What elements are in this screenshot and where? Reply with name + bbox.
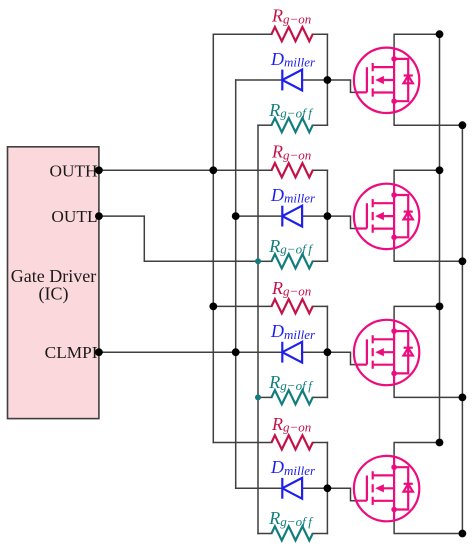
resistor R5 R_g-on xyxy=(271,278,313,314)
diode D2 D_miller xyxy=(270,185,316,227)
wire cell1 R_g-off row xyxy=(258,124,327,126)
wire cell3 gate vertical xyxy=(326,306,328,397)
wire cell3 gate step to MOSFET xyxy=(327,352,357,364)
diode D4 D_miller xyxy=(270,457,316,499)
svg-text:Dmiller: Dmiller xyxy=(270,49,316,70)
wire drain bus (right vertical) xyxy=(439,34,441,442)
node cell2 source junction xyxy=(459,257,467,265)
transistor Q2 MOSFET with body diode xyxy=(354,184,419,249)
wire cell3 R_g-on row xyxy=(213,305,327,307)
transistor Q1 MOSFET with body diode xyxy=(354,48,419,113)
wire cell2 drain up to bus xyxy=(394,170,439,185)
wire cell1 drain up to bus xyxy=(394,34,439,49)
node OUTH bus cell2 xyxy=(209,166,217,174)
diode D3 D_miller xyxy=(270,321,316,363)
wire OUTL pin stepped to R_g-off bus xyxy=(99,216,258,261)
wire cell3 drain up to bus xyxy=(394,306,439,321)
svg-text:Rg−of f: Rg−of f xyxy=(268,508,314,529)
svg-text:Rg−of f: Rg−of f xyxy=(268,100,314,121)
wire cell4 R_g-on row xyxy=(213,442,327,444)
transistor Q3 MOSFET with body diode xyxy=(354,320,419,385)
pin label OUTL xyxy=(51,207,97,226)
wire cell4 D_miller row xyxy=(236,487,328,489)
wire cell1 gate step to MOSFET xyxy=(327,80,357,92)
svg-text:OUTL: OUTL xyxy=(51,207,97,226)
svg-text:Rg−of f: Rg−of f xyxy=(268,236,314,257)
pin label OUTH xyxy=(50,161,98,180)
node cell4 gate junction xyxy=(324,484,332,492)
svg-text:(IC): (IC) xyxy=(39,283,69,304)
node OUTL bus cell3 (teal) xyxy=(255,394,261,400)
wire OUTH bus (left vertical 1) xyxy=(212,34,214,442)
svg-text:Dmiller: Dmiller xyxy=(270,321,316,342)
svg-text:Dmiller: Dmiller xyxy=(270,457,316,478)
svg-text:Rg−on: Rg−on xyxy=(271,142,311,163)
node clamp bus cell3 xyxy=(232,348,240,356)
node cell4 drain junction xyxy=(436,439,444,447)
wire cell1 R_g-on row xyxy=(213,33,327,35)
node cell3 drain junction xyxy=(436,303,444,311)
node cell3 gate junction xyxy=(324,348,332,356)
node cell4 source junction xyxy=(459,530,467,538)
wire CLMPI bus (left vertical 2) xyxy=(235,80,237,488)
wire cell4 gate vertical xyxy=(326,443,328,534)
resistor R3 R_g-on xyxy=(271,142,313,178)
wire cell2 R_g-off row xyxy=(258,260,327,262)
svg-text:Rg−on: Rg−on xyxy=(271,6,311,27)
wire cell4 gate step to MOSFET xyxy=(327,488,357,500)
wire OUTH pin to bus xyxy=(99,169,213,171)
svg-text:Dmiller: Dmiller xyxy=(270,185,316,206)
wire cell2 gate vertical xyxy=(326,170,328,261)
wire cell2 gate step to MOSFET xyxy=(327,216,357,228)
svg-text:Rg−on: Rg−on xyxy=(271,278,311,299)
wire OUTL bus (left vertical 3) xyxy=(257,125,259,533)
resistor R7 R_g-on xyxy=(271,414,313,450)
resistor R2 R_g-off xyxy=(268,100,314,132)
node OUTL pin xyxy=(95,212,103,220)
svg-text:OUTH: OUTH xyxy=(50,161,98,180)
resistor R6 R_g-off xyxy=(268,372,314,404)
wire cell4 R_g-off row xyxy=(258,533,327,535)
wire cell1 gate vertical xyxy=(326,34,328,125)
svg-text:Rg−on: Rg−on xyxy=(271,414,311,435)
node OUTH pin xyxy=(95,166,103,174)
node cell2 drain junction xyxy=(436,166,444,174)
node CLMPI pin xyxy=(95,348,103,356)
resistor R4 R_g-off xyxy=(268,236,314,268)
pin label CLMPI xyxy=(45,343,98,362)
wire cell1 source down to bus xyxy=(394,111,462,125)
resistor R1 R_g-on xyxy=(271,6,313,42)
wire cell3 R_g-off row xyxy=(258,396,327,398)
node cell2 gate junction xyxy=(324,212,332,220)
transistor Q4 MOSFET with body diode xyxy=(354,456,419,521)
svg-text:CLMPI: CLMPI xyxy=(45,343,98,362)
wire cell4 source down to bus xyxy=(394,520,462,534)
node cell1 drain junction xyxy=(436,30,444,38)
wire source bus (far right vertical) xyxy=(461,125,463,533)
resistor R8 R_g-off xyxy=(268,508,314,540)
wire cell2 D_miller row xyxy=(236,215,328,217)
node OUTL bus cell2 (teal) xyxy=(255,258,261,264)
wire cell2 source down to bus xyxy=(394,247,462,261)
diode D1 D_miller xyxy=(270,49,316,91)
wire CLMPI pin to clamp bus xyxy=(99,351,236,353)
svg-text:Rg−of f: Rg−of f xyxy=(268,372,314,393)
wire cell2 R_g-on row xyxy=(99,169,328,171)
node cell1 source junction xyxy=(459,121,467,129)
wire cell3 D_miller row xyxy=(236,351,328,353)
node OUTH bus cell3 xyxy=(209,303,217,311)
node clamp bus cell2 xyxy=(232,212,240,220)
gate driver IC box xyxy=(8,147,99,419)
node cell3 source junction xyxy=(459,394,467,402)
wire cell4 drain up to bus xyxy=(394,443,439,458)
wire cell3 source down to bus xyxy=(394,383,462,397)
wire cell1 D_miller row xyxy=(236,79,328,81)
node cell1 gate junction xyxy=(324,76,332,84)
